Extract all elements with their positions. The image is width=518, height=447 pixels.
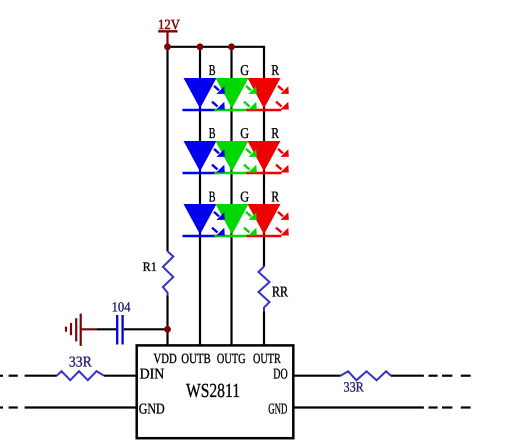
resistor RR	[259, 267, 270, 312]
wire R column	[263, 47, 265, 267]
svg-text:G: G	[240, 63, 249, 79]
svg-text:DIN: DIN	[140, 367, 165, 383]
wire R1 to VDD pin	[166, 295, 168, 345]
wire RR to OUTR pin	[263, 312, 265, 346]
wire G column	[230, 47, 232, 346]
wire B column	[199, 47, 201, 346]
LED blue row3 arrows	[212, 212, 225, 236]
svg-text:G: G	[240, 126, 249, 142]
svg-text:G: G	[240, 189, 249, 205]
LED red row2	[247, 141, 282, 173]
wire DO dashed tail	[429, 375, 471, 377]
junction on bus at VDD column	[164, 43, 171, 50]
svg-text:R1: R1	[143, 259, 157, 274]
LED blue row2 arrows	[212, 149, 225, 173]
resistor 33R right	[341, 371, 391, 380]
wire GND right dashed tail	[429, 406, 471, 408]
svg-text:R: R	[271, 63, 279, 79]
LED blue row3	[183, 204, 218, 236]
svg-text:RR: RR	[272, 284, 288, 300]
svg-text:33R: 33R	[69, 355, 92, 371]
LED green row2 arrows	[244, 149, 257, 173]
capacitor C 104	[117, 315, 122, 345]
svg-text:B: B	[209, 63, 216, 79]
svg-text:OUTG: OUTG	[217, 352, 246, 367]
svg-text:R: R	[271, 189, 279, 205]
LED blue row1 arrows	[212, 86, 225, 110]
svg-text:B: B	[209, 189, 216, 205]
resistor R1	[163, 251, 173, 295]
svg-text:VDD: VDD	[154, 352, 177, 367]
wire VDD column	[166, 47, 168, 252]
svg-text:B: B	[209, 126, 216, 142]
svg-text:GND: GND	[268, 401, 287, 417]
junction on bus at B column	[197, 43, 204, 50]
LED red row1	[247, 78, 282, 110]
ground	[66, 314, 97, 346]
wire DO segment	[293, 375, 341, 377]
LED green row1	[215, 78, 250, 110]
LED red row3	[247, 204, 282, 236]
LED green row2	[215, 141, 250, 173]
wire DIN left segment	[25, 375, 57, 377]
LED green row3	[215, 204, 250, 236]
wire DO right segment	[391, 375, 424, 377]
IC U1 WS2811	[137, 345, 294, 438]
junction VDD node	[164, 326, 171, 333]
wire ground to capacitor	[97, 328, 116, 330]
wire 33R to DIN pin	[104, 375, 137, 377]
svg-text:33R: 33R	[344, 381, 365, 396]
LED green row1 arrows	[244, 86, 257, 110]
svg-text:104: 104	[112, 301, 131, 316]
wire capacitor to VDD node	[124, 328, 166, 330]
LED blue row2	[183, 141, 218, 173]
junction on bus at G column	[228, 43, 235, 50]
wire 12V bus	[166, 46, 265, 48]
LED red row3 arrows	[276, 212, 289, 236]
svg-text:WS2811: WS2811	[186, 380, 240, 402]
LED blue row1	[183, 78, 218, 110]
svg-text:OUTR: OUTR	[253, 352, 281, 367]
wire DIN dashed lead	[0, 375, 18, 377]
wire GND left	[25, 406, 137, 408]
wire GND left dashed lead	[0, 406, 18, 408]
wire GND right	[293, 406, 424, 408]
svg-text:GND: GND	[139, 401, 165, 417]
LED red row1 arrows	[276, 86, 289, 110]
LED green row3 arrows	[244, 212, 257, 236]
resistor 33R left	[57, 371, 104, 380]
svg-text:OUTB: OUTB	[181, 352, 210, 367]
LED red row2 arrows	[276, 149, 289, 173]
svg-text:DO: DO	[273, 367, 288, 383]
svg-text:R: R	[271, 126, 279, 142]
power symbol 12V	[158, 18, 180, 47]
